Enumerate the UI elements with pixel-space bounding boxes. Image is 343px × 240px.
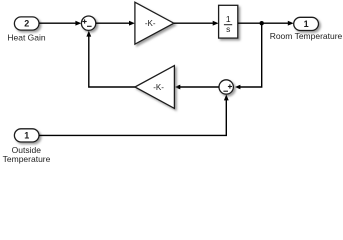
label Outside Temperature (two lines) [3, 145, 51, 164]
svg-text:-K-: -K- [153, 83, 164, 92]
wire Gain1 to Integrator [174, 21, 219, 26]
junction node on output wire [260, 21, 264, 25]
wire Gain2 to Sum1 (feedback) [86, 31, 134, 87]
sum block Sum2 (+ -) [219, 80, 233, 94]
gain block Gain2 -K- (left pointing) [135, 66, 175, 109]
inport block 2 "Heat Gain" [14, 17, 39, 30]
svg-text:1: 1 [24, 131, 29, 141]
wire junction to Sum2 [235, 23, 262, 89]
wire Integrator to Outport [238, 21, 294, 26]
wire Sum1 to Gain1 [96, 21, 135, 26]
inport block 1 "Outside Temperature" [14, 129, 39, 142]
svg-text:1: 1 [304, 19, 309, 29]
svg-text:1: 1 [226, 14, 231, 24]
svg-text:Heat Gain: Heat Gain [7, 33, 46, 43]
wire Outside Temperature to Sum2 [39, 95, 229, 136]
wire Sum2 to Gain2 [174, 85, 219, 90]
gain block Gain1 -K- [135, 2, 174, 44]
integrator block 1/s [219, 5, 238, 38]
svg-text:-K-: -K- [145, 19, 156, 28]
outport block 1 "Room Temperature" [294, 17, 319, 30]
sum block Sum1 (+ -) [81, 16, 95, 30]
svg-text:Temperature: Temperature [3, 154, 51, 164]
svg-text:s: s [226, 24, 230, 34]
svg-text:Room Temperature: Room Temperature [270, 31, 343, 41]
svg-text:2: 2 [24, 19, 29, 29]
wire Heat Gain to Sum1 [39, 21, 81, 26]
